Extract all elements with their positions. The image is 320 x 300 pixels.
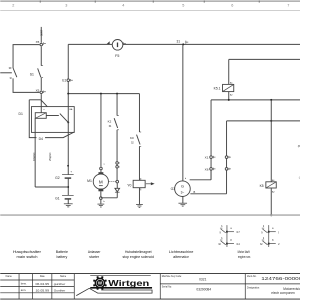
svg-text:7: 7 xyxy=(287,3,289,7)
svg-text:30RT: 30RT xyxy=(40,29,44,36)
svg-text:electr componen: electr componen xyxy=(271,291,295,295)
svg-text:/17: /17 xyxy=(236,231,240,234)
svg-text:Hauptschalter: Hauptschalter xyxy=(13,250,42,254)
svg-text:(: ( xyxy=(299,176,300,180)
svg-text:(K: (K xyxy=(298,144,300,148)
svg-text:battery: battery xyxy=(56,255,67,259)
svg-text:3F: 3F xyxy=(9,66,12,70)
svg-text:X1: X1 xyxy=(205,156,209,160)
svg-text:Wirtgen: Wirtgen xyxy=(108,279,149,288)
svg-text:Batterie: Batterie xyxy=(56,250,68,254)
svg-text:X5: X5 xyxy=(36,40,40,44)
svg-text:G3: G3 xyxy=(171,187,176,191)
svg-text:starter: starter xyxy=(89,255,99,259)
svg-text:D4: D4 xyxy=(39,137,43,141)
svg-text:4: 4 xyxy=(122,3,124,7)
svg-text:Hubabstellmagnet: Hubabstellmagnet xyxy=(125,250,152,254)
svg-text:K0: K0 xyxy=(130,136,134,140)
svg-text:3: 3 xyxy=(65,3,67,7)
svg-text:G1: G1 xyxy=(55,197,60,201)
svg-text:M1: M1 xyxy=(87,179,92,183)
svg-text:G: G xyxy=(181,185,184,189)
svg-text:Machine Key Code:: Machine Key Code: xyxy=(162,276,182,278)
svg-text:Motor läuft: Motor läuft xyxy=(238,250,251,254)
svg-text:06.04.95: 06.04.95 xyxy=(36,282,50,286)
svg-text:Name: Name xyxy=(60,276,67,278)
svg-text:X5: X5 xyxy=(36,89,40,93)
svg-text:Ident-No.: Ident-No. xyxy=(247,275,257,278)
svg-text:K5: K5 xyxy=(260,184,264,188)
svg-text:gunther: gunther xyxy=(54,282,66,286)
svg-text:S1: S1 xyxy=(30,72,34,76)
svg-text:K5.1: K5.1 xyxy=(214,87,221,91)
svg-text:Name: Name xyxy=(6,276,13,278)
svg-text:Anlasser: Anlasser xyxy=(88,250,101,254)
svg-text:Gunther: Gunther xyxy=(54,288,66,292)
svg-text:10.05.99: 10.05.99 xyxy=(36,288,50,292)
svg-text:ann.: ann. xyxy=(21,288,27,292)
svg-text:124766-00000: 124766-00000 xyxy=(261,276,300,281)
svg-text:B: B xyxy=(193,190,195,194)
svg-text:bew.: bew. xyxy=(21,282,27,286)
svg-text:6: 6 xyxy=(231,3,233,7)
svg-text:G2: G2 xyxy=(55,176,60,180)
svg-text:Lichtmaschine: Lichtmaschine xyxy=(169,250,194,254)
svg-text:25qmm: 25qmm xyxy=(49,153,52,161)
svg-text:03290084: 03290084 xyxy=(196,287,211,291)
svg-text:D1: D1 xyxy=(19,112,23,116)
svg-text:Serial No:: Serial No: xyxy=(162,285,172,288)
svg-text:F5: F5 xyxy=(115,54,119,58)
svg-text:2: 2 xyxy=(12,3,14,7)
svg-text:alternator: alternator xyxy=(173,255,189,259)
svg-text:main switch: main switch xyxy=(17,255,38,259)
svg-text:/14: /14 xyxy=(236,243,240,246)
svg-text:stop engine solenoid: stop engine solenoid xyxy=(122,255,154,259)
svg-text:engine runs: engine runs xyxy=(238,255,250,259)
svg-text:Motorrevisio: Motorrevisio xyxy=(283,287,300,291)
svg-text:3I: 3I xyxy=(9,76,11,80)
svg-text:K2: K2 xyxy=(108,120,112,124)
svg-text:16qmm: 16qmm xyxy=(33,153,36,161)
svg-text:Date: Date xyxy=(40,275,46,278)
svg-text:5: 5 xyxy=(182,3,184,7)
svg-text:E1: E1 xyxy=(62,79,66,83)
svg-text:M: M xyxy=(99,180,103,185)
svg-text:Designation:: Designation: xyxy=(247,286,260,289)
svg-text:31: 31 xyxy=(177,40,181,44)
svg-text:Y0: Y0 xyxy=(127,183,131,187)
svg-text:3~: 3~ xyxy=(181,190,185,194)
svg-text:X6: X6 xyxy=(205,167,209,171)
svg-text:0321: 0321 xyxy=(199,278,207,282)
